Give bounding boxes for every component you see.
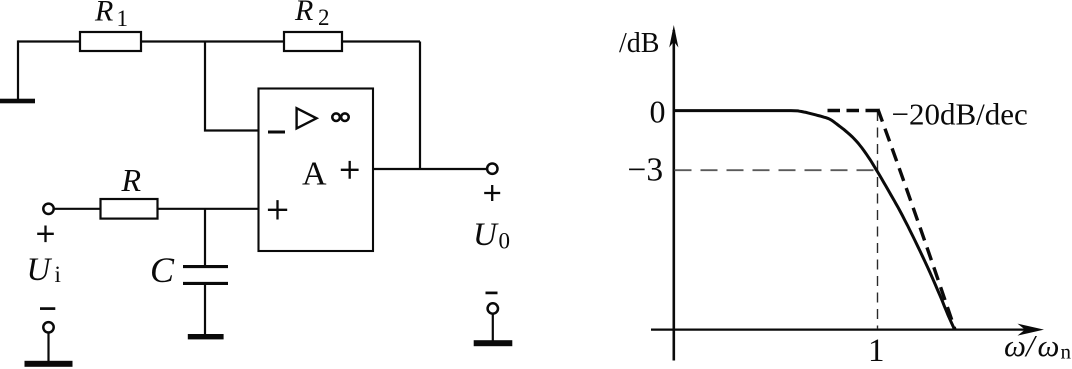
- wire lower-left terminal stem: [47, 333, 49, 362]
- svg-text:U: U: [473, 217, 499, 253]
- svg-text:i: i: [55, 262, 61, 287]
- ground lower-left: [25, 361, 73, 367]
- wire junction down to inverting input: [205, 42, 259, 131]
- svg-text:2: 2: [318, 5, 330, 30]
- svg-text:1: 1: [868, 333, 885, 369]
- svg-text:U: U: [27, 252, 53, 288]
- svg-text:R: R: [121, 162, 142, 198]
- ground top-left: [0, 99, 35, 104]
- ground lower-right: [474, 340, 513, 346]
- wire feedback vertical down to output: [419, 42, 421, 170]
- wire top horizontal from left ground to R1: [18, 40, 80, 42]
- lower-right terminal circle: [488, 303, 498, 313]
- input terminal circle: [43, 204, 53, 214]
- dashed gray -3 level line: [675, 169, 877, 171]
- svg-text:−3: −3: [628, 152, 664, 189]
- svg-text:R: R: [294, 0, 313, 27]
- wire lower-right terminal stem: [492, 314, 494, 341]
- wire R2 to feedback corner: [342, 40, 420, 42]
- wire input terminal to R: [54, 208, 101, 210]
- ground capacitor: [188, 334, 224, 339]
- dashed asymptote horizontal segment: [821, 109, 878, 112]
- x-axis: [651, 328, 1036, 330]
- solid response curve: [674, 111, 955, 330]
- x-axis arrowhead: [1018, 324, 1045, 336]
- input plus sign: [37, 226, 54, 243]
- y-axis arrowhead: [669, 25, 678, 48]
- dashed asymptote -20dB/dec slant: [878, 109, 955, 329]
- output minus sign: [486, 292, 498, 295]
- resistor R1: [80, 32, 141, 51]
- output terminal circle: [487, 164, 497, 174]
- op-amp triangle symbol: [297, 108, 317, 128]
- resistor R2: [284, 32, 342, 51]
- wire capacitor bottom stem: [204, 285, 206, 335]
- input minus sign: [40, 307, 55, 310]
- wire R1 to R2 with junction: [141, 40, 284, 42]
- op-amp infinity: [332, 113, 348, 121]
- svg-text:1: 1: [117, 6, 129, 31]
- op-amp inverting input minus: [268, 131, 285, 134]
- svg-text:0: 0: [650, 94, 666, 130]
- op-amp output plus: [341, 161, 359, 179]
- svg-text:ω: ω: [1038, 328, 1060, 363]
- op-amp U1 box: [259, 89, 374, 252]
- capacitor C plates: [183, 265, 228, 268]
- wire op-amp output to terminal: [373, 168, 487, 170]
- svg-text:C: C: [150, 250, 175, 290]
- dashed vertical line at omega=1: [877, 111, 879, 329]
- svg-text:/dB: /dB: [619, 28, 659, 59]
- svg-text:n: n: [1061, 340, 1072, 364]
- output plus sign: [484, 185, 500, 201]
- svg-text:−20dB/dec: −20dB/dec: [892, 97, 1028, 132]
- wire capacitor top stem: [204, 209, 206, 266]
- lower-left terminal circle: [43, 322, 53, 332]
- svg-text:A: A: [302, 155, 327, 192]
- wire left vertical to ground: [17, 40, 19, 99]
- svg-text:0: 0: [499, 229, 511, 254]
- wire R to op-amp noninverting input: [158, 208, 259, 210]
- svg-text:R: R: [94, 0, 113, 28]
- y-axis: [672, 30, 675, 361]
- svg-text:ω: ω: [1004, 328, 1026, 363]
- op-amp noninverting input plus: [268, 200, 287, 219]
- resistor R: [101, 199, 158, 219]
